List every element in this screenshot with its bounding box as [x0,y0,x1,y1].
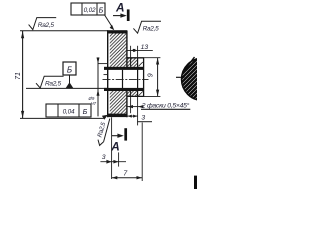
dimension line diameter 71 (left vertical) [22,31,24,118]
leader 2 фаски 0,5x45 [126,106,141,108]
flange right face lower [126,90,128,118]
section plane thick bar top [127,9,130,21]
boss right face [143,57,145,96]
flange left face [107,30,109,117]
flange top face thick band [107,30,127,33]
datum symbol Б [63,62,76,88]
svg-text:0,02: 0,02 [84,7,96,14]
boss corner hatch strokes right [139,62,143,66]
bore top edge thick band [104,67,144,70]
svg-text:71: 71 [15,72,22,80]
section arrow bottom [112,135,122,137]
svg-text:Б: Б [99,5,104,14]
boss top face [127,57,144,59]
tolerance frame 0,04 Б (lower) [46,104,91,117]
datum line (bore lower edge extended left) [26,87,107,89]
bottom extension lines [111,117,113,179]
svg-text:A: A [115,0,125,14]
section plane thick bar bottom [124,128,127,140]
svg-text:Ra2,5: Ra2,5 [143,26,160,33]
flange hatch lower [110,91,127,114]
dimension 9 (boss diameter, right) [144,57,161,59]
svg-text:Ra2,5: Ra2,5 [45,81,62,88]
svg-text:9: 9 [148,73,155,77]
svg-text:13: 13 [141,44,149,51]
left face step tick [104,74,108,76]
chamfer edge lines x130 [130,58,132,67]
flange bottom face thick band [107,114,127,118]
black corner bar bottom-right [194,176,197,189]
dimension 3 (bottom) [100,161,126,163]
svg-text:H7: H7 [91,101,97,106]
hatched circle (adjacent view, clipped at right edge) [176,57,224,101]
dimension 7 (bottom) [112,177,143,179]
extension line bottom (flange bottom face extended left) [20,117,104,119]
flange right face upper [126,31,128,68]
svg-text:Б: Б [67,66,72,75]
bore bottom edge thick band [104,88,144,91]
dimension 3 (right, chamfer depth) [130,97,132,113]
leader arrow into lower-left part corner [102,115,108,120]
boss bottom face [127,95,144,97]
svg-text:0,04: 0,04 [63,109,75,116]
roughness symbol Ra2,5 rotated (bottom-left of part) [96,119,109,146]
dimension 13 (top right) [130,46,132,58]
bore inner shoulder right [137,58,139,97]
boss hatch lower [128,91,138,97]
section arrow top [113,15,125,17]
roughness symbol Ra2,5 on datum line [36,76,64,88]
flange hatch upper [110,33,127,66]
svg-text:Ra2,5: Ra2,5 [38,22,55,29]
svg-text:3: 3 [102,154,106,161]
svg-text:Б: Б [83,107,88,116]
bore inner shoulder left [122,70,124,88]
roughness symbol Ra2,5 top-right [133,21,161,33]
bore upper step tick [98,63,108,65]
inner bore dimension line (left of part) [97,57,99,116]
centerline axis [103,79,149,81]
boss hatch upper [128,58,138,66]
roughness symbol Ra2,5 top-left [29,18,57,30]
svg-text:2 фаски 0,5×45°: 2 фаски 0,5×45° [141,101,190,109]
extension line top (flange top face extended left) [20,30,108,32]
svg-text:3: 3 [141,114,145,121]
tolerance frame 0,02 Б (top) [71,3,105,15]
leader from tolerance frame to part top face [105,15,113,28]
